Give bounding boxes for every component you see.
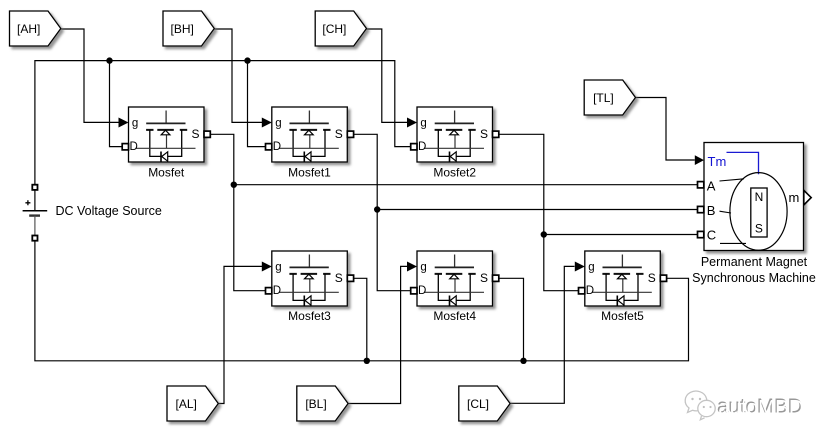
from tag [TL] — [584, 80, 635, 115]
svg-text:Tm: Tm — [708, 154, 727, 169]
svg-text:[BL]: [BL] — [305, 397, 326, 411]
wire: [BL] to Mosfet4 g — [348, 266, 407, 403]
svg-text:autoMBD: autoMBD — [718, 396, 803, 419]
wire: Mosfet3 S to ground bus — [353, 278, 367, 361]
svg-text:Permanent Magnet: Permanent Magnet — [701, 255, 808, 269]
mosfet Mosfet2 — [407, 107, 499, 180]
svg-text:Mosfet2: Mosfet2 — [433, 166, 476, 180]
junction — [244, 57, 250, 63]
from tag [AL] — [167, 386, 218, 421]
svg-text:Mosfet1: Mosfet1 — [288, 166, 331, 180]
from tag [BL] — [297, 386, 348, 421]
svg-text:A: A — [707, 178, 716, 193]
DC voltage source — [23, 185, 162, 241]
from tag [AH] — [10, 11, 61, 46]
wire: DC+ top bus from DC source to Mosfet2 D — [35, 61, 411, 190]
svg-text:[AH]: [AH] — [17, 22, 40, 36]
wire: [CL] to Mosfet5 g — [510, 266, 575, 403]
wire: phase A line Mosfet S to PMSM A — [209, 134, 697, 184]
wire: phase C down to Mosfet5 D — [544, 235, 579, 291]
mosfet Mosfet3 — [262, 251, 354, 323]
mosfet Mosfet4 — [407, 251, 499, 323]
wire: branch to Mosfet D — [110, 61, 123, 147]
PMSM Tm input arrow — [695, 155, 704, 165]
wire: Mosfet4 S to ground bus — [498, 278, 524, 361]
junction — [364, 358, 370, 364]
wire: phase B down to Mosfet4 D — [377, 210, 410, 291]
svg-text:DC Voltage Source: DC Voltage Source — [56, 204, 162, 218]
PMSM magnet rect — [751, 188, 767, 237]
junction — [541, 231, 547, 237]
svg-text:[TL]: [TL] — [593, 91, 614, 105]
svg-text:C: C — [707, 228, 716, 243]
mosfet Mosfet — [119, 107, 211, 180]
wire: [AL] to Mosfet3 g — [218, 266, 262, 403]
wire: ground bus DC- to Mosfet5 S — [35, 241, 689, 361]
PMSM port B — [698, 206, 704, 212]
wire: phase A down to Mosfet3 D — [234, 185, 266, 291]
wire: [TL] to PMSM Tm — [636, 98, 695, 161]
PMSM port A — [698, 182, 704, 188]
svg-text:[CL]: [CL] — [467, 397, 489, 411]
wire: [CH] to Mosfet2 g — [367, 29, 408, 122]
svg-text:B: B — [707, 203, 716, 218]
svg-text:Mosfet3: Mosfet3 — [288, 309, 331, 323]
svg-text:m: m — [789, 190, 800, 205]
wire: phase B line Mosfet1 S to PMSM B — [353, 134, 698, 209]
svg-text:[BH]: [BH] — [171, 22, 194, 36]
mosfet Mosfet1 — [262, 107, 354, 180]
svg-text:Mosfet4: Mosfet4 — [433, 309, 476, 323]
wire: phase C line Mosfet2 S to PMSM C — [498, 134, 698, 234]
PMSM port C — [698, 231, 704, 237]
PMSM rotor ellipse — [730, 173, 787, 251]
from tag [CH] — [315, 11, 366, 46]
svg-text:Mosfet5: Mosfet5 — [601, 309, 644, 323]
junction — [106, 57, 112, 63]
from tag [BH] — [163, 11, 214, 46]
svg-text:S: S — [755, 221, 763, 235]
mosfet Mosfet5 — [575, 251, 667, 323]
PMSM Permanent Magnet Synchronous Machine — [692, 143, 816, 285]
svg-text:[CH]: [CH] — [322, 22, 346, 36]
watermark autoMBD — [685, 391, 803, 420]
svg-text:Mosfet: Mosfet — [148, 166, 185, 180]
from tag [CL] — [459, 386, 510, 421]
wire: branch to Mosfet1 D — [248, 61, 266, 147]
svg-text:N: N — [755, 190, 764, 204]
junction — [520, 358, 526, 364]
junction — [374, 206, 380, 212]
svg-text:[AL]: [AL] — [176, 397, 197, 411]
junction — [231, 182, 237, 188]
PMSM Tm blue line — [727, 152, 759, 174]
wire: [AH] to Mosfet g — [61, 29, 119, 122]
svg-text:Synchronous Machine: Synchronous Machine — [692, 271, 816, 285]
wire: [BH] to Mosfet1 g — [214, 29, 262, 122]
